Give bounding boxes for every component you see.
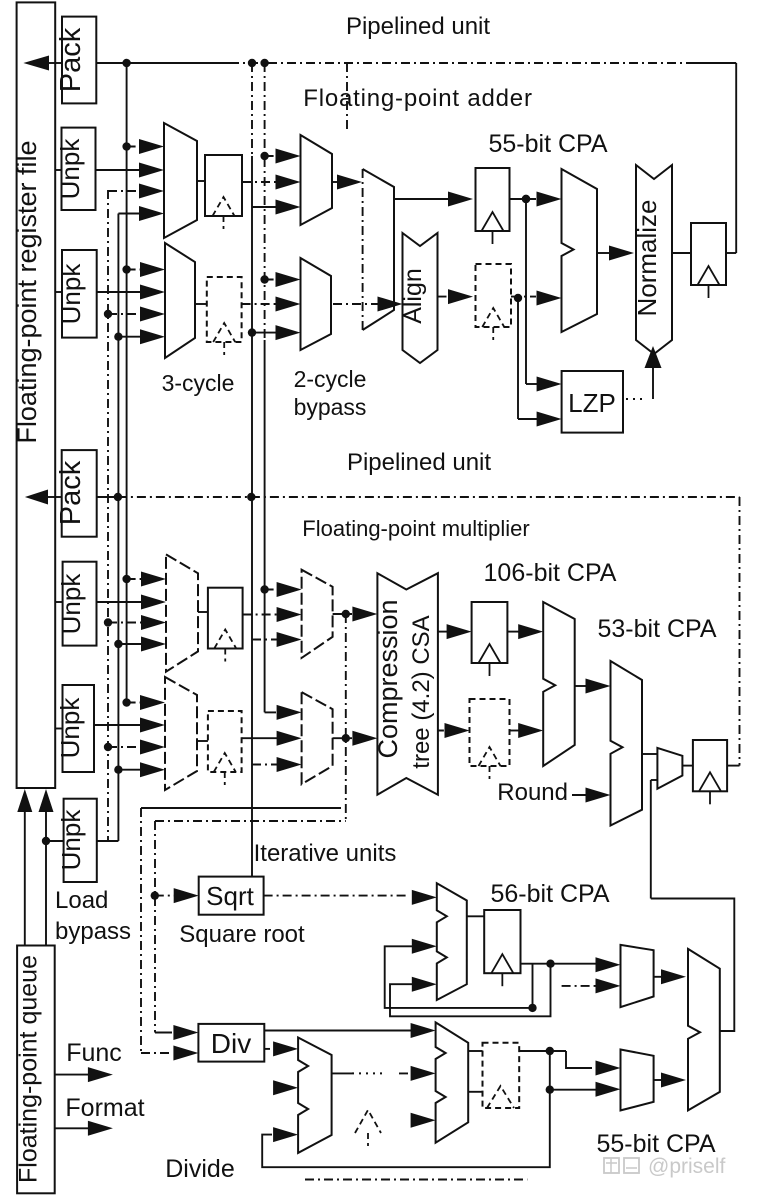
arrow <box>596 957 621 972</box>
arrow <box>537 291 562 306</box>
wire to Unpk5 <box>46 840 64 842</box>
A4 input from RA2 <box>242 303 280 305</box>
mux S2 (sqrt result) <box>621 945 654 1007</box>
svg-text:@priself: @priself <box>648 1155 726 1178</box>
Pack box (adder writeback) <box>62 17 96 104</box>
svg-text:3-cycle: 3-cycle <box>162 370 235 396</box>
junction dot <box>514 294 522 302</box>
svg-text:55-bit CPA: 55-bit CPA <box>596 1130 715 1158</box>
mux A1 (3-cycle op A) <box>164 123 197 238</box>
svg-text:bypass: bypass <box>294 394 367 420</box>
svg-text:Compression: Compression <box>373 599 403 758</box>
junction dot <box>260 59 268 67</box>
wire <box>155 1032 172 1034</box>
svg-text:tree (4.2) CSA: tree (4.2) CSA <box>408 615 435 768</box>
arrow <box>252 764 281 766</box>
junction dot <box>104 310 112 318</box>
wire RC2 tap down to LZP <box>517 298 519 419</box>
Unpk box 2 (adder operand B) <box>62 250 97 338</box>
wire <box>468 1091 482 1093</box>
shape <box>636 165 672 354</box>
106-bit CPA adder <box>543 602 575 766</box>
svg-text:Pack: Pack <box>55 27 87 92</box>
iterative result into MM <box>651 779 658 781</box>
svg-text:Align: Align <box>399 268 427 324</box>
mux A4 (2-cycle bypass B) <box>301 258 332 350</box>
wire mux A2 to funnel <box>332 181 341 183</box>
LZP box <box>562 371 623 433</box>
svg-text:Pipelined unit: Pipelined unit <box>346 13 490 40</box>
arrow <box>108 746 144 748</box>
55-bit CPA adder (iterative) <box>688 949 720 1111</box>
svg-text:Pack: Pack <box>55 460 87 525</box>
junction dot <box>546 960 554 968</box>
vertical from iterative units <box>650 780 652 899</box>
wire mux A1 to reg <box>197 180 205 182</box>
wire <box>690 62 736 64</box>
svg-text:Iterative units: Iterative units <box>254 840 397 867</box>
M2 input from RM1 <box>243 614 281 616</box>
register RC2 (dashed) <box>476 264 512 327</box>
arrow <box>127 578 145 580</box>
wire regfile to Unpk4 <box>55 728 62 730</box>
D2 input r3 <box>411 1113 436 1128</box>
wire RAO to feedback <box>726 252 736 254</box>
svg-text:Round: Round <box>497 779 568 806</box>
arrow <box>526 383 541 385</box>
register file box: Floating-point register file <box>17 2 56 788</box>
arrow <box>352 731 377 746</box>
sqrt CSA (3:2) <box>437 883 467 1000</box>
arrow <box>399 1072 415 1074</box>
arrow <box>118 213 143 215</box>
arrow <box>127 269 144 271</box>
M3 input from Unpk4 <box>94 724 144 726</box>
shape <box>377 573 438 795</box>
53-bit CPA adder <box>611 661 643 826</box>
svg-text:Format: Format <box>65 1094 144 1122</box>
arrow <box>596 978 621 993</box>
junction dot <box>546 1047 554 1055</box>
arrow <box>108 190 143 192</box>
Unpk box 1 (adder operand A) <box>62 128 96 210</box>
mux M2 <box>302 570 333 658</box>
bus x=118 <box>117 214 119 842</box>
junction dot <box>528 1004 536 1012</box>
register RMC1 (106-bit CPA in, solid) <box>472 602 508 663</box>
Round arrow <box>572 794 590 796</box>
junction dot <box>114 640 122 648</box>
55-bit CPA adder <box>562 169 598 332</box>
arrow <box>265 589 281 591</box>
junction to Sqrt <box>151 891 159 899</box>
arrow <box>277 705 302 720</box>
junction dot <box>114 766 122 774</box>
swap funnel (exponent compare) <box>363 169 394 330</box>
arrow <box>127 702 144 704</box>
svg-text:Unpk: Unpk <box>56 573 86 635</box>
register RMC2 (dashed) <box>470 699 510 766</box>
wire LZP to Normalize (dotted) <box>626 398 646 400</box>
divide remainder feedback <box>262 1090 550 1168</box>
divide CSA D1 <box>298 1038 332 1153</box>
Pack box (multiplier writeback) <box>62 450 97 537</box>
arrow <box>518 418 541 420</box>
svg-text:56-bit CPA: 56-bit CPA <box>490 880 609 908</box>
bus x=108 (dash-dot) <box>107 190 109 841</box>
junction dot <box>342 610 350 618</box>
iterative operand line 1 <box>141 807 341 809</box>
svg-text:Floating-point register file: Floating-point register file <box>12 140 42 443</box>
Sqrt to sqrt datapath (dash-dot) <box>264 895 406 897</box>
D1 input r3 (feedback) <box>273 1127 298 1142</box>
junction: writeback/operand bus A <box>122 59 130 67</box>
D2 to RD <box>468 1050 482 1052</box>
sqrt CSA input r1 <box>412 890 437 905</box>
RMC1 to 106CPA <box>507 631 522 633</box>
writeback bus (dash-dot) to right edge <box>230 62 690 64</box>
to mux D3 input 2 <box>550 1089 596 1091</box>
box <box>483 1043 520 1108</box>
bus x=252 solid <box>251 156 253 877</box>
D1 out <box>332 1072 352 1074</box>
iterative result feedback to multiplier mux <box>651 899 735 1032</box>
wire regfile to Unpk3 <box>55 601 62 603</box>
queue box: Floating-point queue <box>17 946 55 1194</box>
M4 input from RM2 <box>242 737 281 739</box>
svg-text:Func: Func <box>66 1039 122 1067</box>
106CPA to 53CPA <box>575 685 590 687</box>
CSA out to RMC1 <box>438 631 451 633</box>
svg-text:106-bit CPA: 106-bit CPA <box>484 559 617 587</box>
junction dot <box>260 152 268 160</box>
wire RC2 to 55CPA <box>511 296 536 298</box>
junction dot <box>248 59 256 67</box>
implicit latch (dashed clock tri) <box>355 1110 381 1133</box>
Div input 1 <box>173 1025 198 1040</box>
arrow <box>252 332 280 334</box>
register RAO (adder output) <box>691 223 726 285</box>
svg-text:Pipelined unit: Pipelined unit <box>347 449 491 476</box>
wire M1 to RM1 <box>198 611 208 613</box>
mux D3 (divide result) <box>621 1050 654 1111</box>
writeback bus mult (dash-dot) <box>118 496 740 498</box>
shape <box>403 233 438 363</box>
wire RC1 to 55CPA <box>510 198 537 200</box>
svg-text:53-bit CPA: 53-bit CPA <box>597 615 716 643</box>
bus x=252 (dash-dot top) <box>251 63 253 156</box>
wire M2 out to CSA <box>333 613 352 615</box>
mux M3 (mult op B) <box>165 677 197 790</box>
Div box <box>198 1024 264 1062</box>
feedback vertical right (mult) <box>739 497 741 766</box>
arrow <box>252 639 281 641</box>
Div out 1 (to mux D2) <box>264 1030 388 1032</box>
wire Normalize to output reg <box>672 252 691 254</box>
wire <box>97 496 118 498</box>
CSA to RS <box>467 915 484 917</box>
watermark zhihu @priself <box>604 1158 639 1173</box>
bus x=345.8 down to iterative feed <box>345 614 347 821</box>
wire M4 out to CSA <box>333 737 352 739</box>
svg-text:Square root: Square root <box>179 921 305 948</box>
A3 input from Unpk2 <box>97 291 144 293</box>
svg-text:LZP: LZP <box>568 388 616 418</box>
bus down to Div r2 <box>140 808 142 1053</box>
wire <box>141 1052 172 1054</box>
arrow <box>265 155 280 157</box>
arrow <box>252 206 280 208</box>
wire mux A4 to Align <box>333 303 382 305</box>
register RS (56-bit CPA) <box>484 910 520 973</box>
svg-text:Floating-point adder: Floating-point adder <box>303 85 532 112</box>
S2 to 55CPA <box>654 976 665 978</box>
register RM2 (mult stage1 B, dashed) <box>208 711 242 772</box>
arrow <box>127 146 143 148</box>
wire <box>55 1074 90 1076</box>
A2 input from RA1 <box>242 181 280 183</box>
mux A3 (3-cycle op B) <box>165 243 195 358</box>
register RMO (mult output) <box>693 740 727 791</box>
wire RC1 tap down to LZP <box>525 199 527 384</box>
wire regfile to Unpk2 <box>55 291 62 293</box>
junction dot <box>122 575 130 583</box>
svg-text:Unpk: Unpk <box>55 138 85 200</box>
wire 55CPA to Normalize <box>597 252 613 254</box>
M1 input from Unpk3 <box>97 601 146 603</box>
bus x=264.6 (dash-dot top) <box>264 63 266 340</box>
junction dot <box>247 493 255 501</box>
2nd input to mux S2 <box>562 985 596 987</box>
arrow <box>155 895 178 897</box>
junction dot <box>122 265 130 273</box>
register RC1 (55-bit CPA input, sum) <box>476 168 510 231</box>
Unpk box 5 (load bypass) <box>64 799 97 882</box>
wire <box>549 1051 551 1090</box>
arrow <box>118 769 144 771</box>
sqrt CSA input r2 (feedback) <box>412 939 437 954</box>
wire <box>49 62 62 64</box>
sqrt feedback loop B <box>390 964 551 1017</box>
53CPA out to mux MM <box>642 753 657 755</box>
stub bus above mux A2 <box>346 63 348 133</box>
junction dot <box>104 618 112 626</box>
iterative operand line 2 <box>155 820 346 822</box>
junction dot <box>546 1086 554 1094</box>
svg-text:Floating-point multiplier: Floating-point multiplier <box>302 516 529 541</box>
register RA1 (adder stage1 A) <box>205 155 242 216</box>
svg-text:Unpk: Unpk <box>56 263 86 325</box>
RMO out to feedback <box>727 765 739 767</box>
svg-text:2-cycle: 2-cycle <box>294 366 367 392</box>
junction A1 r1 <box>122 142 130 150</box>
arrow <box>537 192 562 207</box>
mux D3 input 1 <box>596 1061 621 1076</box>
junction writeback mult <box>114 493 122 501</box>
Unpk5 out to bus <box>97 840 119 842</box>
junction dot <box>248 328 256 336</box>
mux A2 (2-cycle bypass A) <box>301 135 333 225</box>
RS out <box>521 963 597 965</box>
sqrt feedback loop A <box>385 946 533 1008</box>
divide CSA D2 <box>436 1022 469 1142</box>
feedback vertical right side (adder) <box>735 63 737 253</box>
wire funnel to CPA reg 1 <box>394 198 452 200</box>
svg-text:bypass: bypass <box>55 918 131 945</box>
wire <box>24 812 26 946</box>
RMC2 to 106CPA <box>510 730 523 732</box>
svg-text:55-bit CPA: 55-bit CPA <box>488 130 607 158</box>
writeback wire adder (Pack) <box>23 56 49 71</box>
Sqrt box <box>199 877 264 915</box>
bus x=126.6 <box>126 63 128 703</box>
writeback wire multiplier (Pack) <box>25 490 48 505</box>
RD out <box>519 1050 566 1052</box>
junction dot <box>260 585 268 593</box>
arrow <box>108 622 145 624</box>
junction dot <box>114 333 122 341</box>
wire <box>352 1072 386 1074</box>
svg-text:Divide: Divide <box>165 1155 234 1183</box>
Unpk box 3 (multiplier operand A) <box>63 562 97 646</box>
Div out 2 (to CSA D1) <box>264 1048 270 1050</box>
A1 input from Unpk1 <box>96 169 144 171</box>
arrow <box>118 336 144 338</box>
svg-text:Normalize: Normalize <box>632 199 662 316</box>
D1 input r2 <box>273 1080 298 1095</box>
arrow <box>352 607 377 622</box>
svg-text:Unpk: Unpk <box>55 697 85 759</box>
arrow <box>273 1041 298 1056</box>
wire Align to CPA reg 2 <box>438 296 453 298</box>
svg-text:Sqrt: Sqrt <box>206 881 254 911</box>
register RA2 (adder stage1 B, dashed) <box>207 277 242 342</box>
register RM1 (mult stage1 A) <box>208 588 243 649</box>
wire <box>265 711 276 713</box>
wire mux A3 to reg <box>195 303 207 305</box>
arrow <box>108 313 144 315</box>
Unpk box 4 (multiplier operand B) <box>63 685 95 772</box>
wire M3 to RM2 <box>197 740 208 742</box>
svg-text:Floating-point queue: Floating-point queue <box>15 955 43 1183</box>
junction dot <box>522 195 530 203</box>
wire <box>45 812 47 946</box>
wire <box>96 62 230 64</box>
sqrt CSA input r3 (feedback) <box>412 977 437 992</box>
wire <box>362 169 364 330</box>
CSA out to RMC2 <box>438 730 449 732</box>
arrow <box>388 1030 415 1032</box>
arrow <box>118 643 145 645</box>
junction dot <box>522 195 530 203</box>
MM to RMO <box>682 765 693 767</box>
bus down to Div r1 / Sqrt <box>154 821 156 1033</box>
junction dot <box>342 734 350 742</box>
D3 to 55CPA <box>654 1079 665 1081</box>
wire regfile to Unpk1 <box>55 169 61 171</box>
junction dot <box>122 698 130 706</box>
bus x=264.6 solid lower <box>264 340 266 712</box>
arrow <box>596 1082 621 1097</box>
svg-text:Load: Load <box>55 887 108 914</box>
junction dot <box>260 275 268 283</box>
mux MM (mult output mux) <box>657 748 682 789</box>
bottom dashed line <box>305 1179 527 1181</box>
wire <box>652 364 654 399</box>
wire <box>55 1127 90 1129</box>
junction dot <box>104 743 112 751</box>
junction load bypass <box>42 837 50 845</box>
wire <box>48 496 62 498</box>
arrow <box>265 279 280 281</box>
mux M1 (mult op A) <box>166 554 198 671</box>
svg-text:Div: Div <box>211 1028 251 1059</box>
mux M4 <box>302 692 333 784</box>
Div input 2 <box>173 1046 198 1061</box>
svg-text:Unpk: Unpk <box>56 809 86 871</box>
